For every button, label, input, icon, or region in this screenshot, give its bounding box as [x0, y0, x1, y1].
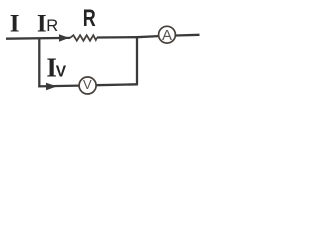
svg-text:V: V [83, 77, 92, 92]
voltmeter U-V circle [79, 77, 96, 94]
wire: bottom branch from voltmeter to right vertical [97, 83, 138, 86]
arrowhead: current Iv direction on bottom branch [46, 83, 57, 91]
svg-text:V: V [56, 63, 67, 80]
svg-text:I: I [37, 10, 47, 37]
arrowhead: current I direction on top rail [59, 34, 69, 42]
wire: left branch vertical (node to voltmeter branch) [38, 39, 40, 87]
svg-text:A: A [162, 27, 172, 44]
ammeter U-A circle [159, 26, 176, 43]
wire: top rail from resistor to junction node [97, 36, 137, 39]
resistor R (zigzag) [70, 35, 97, 41]
svg-text:R: R [46, 17, 58, 35]
svg-text:R: R [83, 5, 96, 32]
wire: top rail left segment (source to resistor) [6, 37, 70, 40]
svg-text:I: I [10, 10, 20, 37]
wire: top rail from ammeter to right end [176, 34, 200, 37]
wire: right vertical (bottom branch up to top rail junction) [136, 37, 138, 84]
wire: bottom branch horizontal to voltmeter [38, 84, 78, 87]
wire: top rail from junction to ammeter [137, 36, 158, 37]
